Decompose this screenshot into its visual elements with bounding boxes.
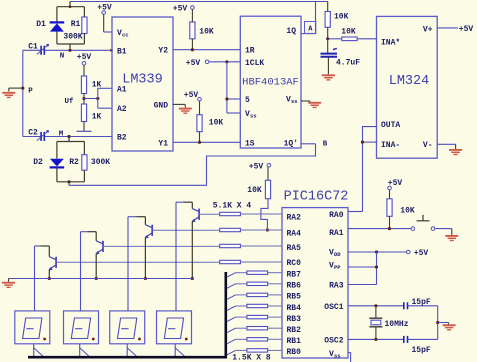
svg-text:5.1K X 4: 5.1K X 4 bbox=[213, 201, 252, 210]
wire P to ground bbox=[9, 87, 23, 89]
capacitor C3 4.7uF bbox=[321, 39, 338, 75]
capacitor C1 (variable) bbox=[37, 44, 49, 55]
svg-text:10K: 10K bbox=[199, 28, 214, 37]
svg-text:+5V: +5V bbox=[186, 59, 201, 68]
svg-text:OSC1: OSC1 bbox=[324, 303, 343, 312]
pin 1R label bbox=[245, 47, 255, 56]
wire Y2 to HBF 1R bbox=[173, 49, 240, 51]
pin INA+ label bbox=[381, 38, 400, 47]
wire +5V to 1CLK bbox=[209, 60, 240, 63]
label 10MHz bbox=[385, 320, 409, 329]
pin B1 label bbox=[117, 47, 127, 56]
svg-text:RA4: RA4 bbox=[287, 230, 302, 239]
transistor Q2 bbox=[81, 232, 220, 311]
wire D2/R2 box bottom bbox=[57, 181, 85, 183]
label 10K (Y2 pullup) bbox=[199, 28, 214, 37]
op-amp U1 LM339 box bbox=[112, 17, 173, 151]
label node A bbox=[308, 25, 313, 33]
pin 5 label bbox=[245, 96, 250, 105]
label LM339 bbox=[122, 73, 163, 88]
svg-text:Uf: Uf bbox=[64, 98, 74, 106]
svg-text:+5V: +5V bbox=[77, 53, 92, 62]
svg-text:OSC2: OSC2 bbox=[324, 336, 343, 345]
resistor 10K (RA1) bbox=[387, 199, 392, 217]
svg-text:300K: 300K bbox=[63, 33, 82, 42]
svg-text:B2: B2 bbox=[117, 134, 127, 143]
svg-text:HBF4013AF: HBF4013AF bbox=[242, 77, 299, 89]
label M bbox=[59, 130, 64, 138]
wire 10K jog to RA4 bbox=[261, 199, 269, 232]
power +5V (LM339 Vcc) bbox=[97, 4, 112, 32]
svg-text:1Q': 1Q' bbox=[284, 140, 298, 149]
junction Q1 emitter-rail bbox=[48, 277, 51, 280]
label 1.5K X 8 bbox=[232, 354, 271, 362]
power +5V (RA1) bbox=[388, 179, 403, 199]
pin RA0 label bbox=[329, 211, 344, 220]
flip-flop U2 HBF4013AF box bbox=[240, 16, 301, 148]
pin Vss label (PIC) bbox=[329, 350, 341, 360]
svg-text:RA0: RA0 bbox=[329, 211, 344, 220]
svg-text:D1: D1 bbox=[36, 20, 46, 29]
capacitor 15pF upper bbox=[404, 302, 438, 309]
ground (oscillator) bbox=[443, 323, 456, 330]
wire button to ground bbox=[435, 229, 452, 235]
wire PIC Vss down bbox=[348, 353, 351, 362]
svg-text:10K: 10K bbox=[341, 28, 356, 37]
svg-text:DD: DD bbox=[334, 251, 341, 258]
pin 1S label bbox=[245, 140, 255, 149]
label 10K (to INA+) bbox=[341, 28, 356, 37]
svg-text:Y2: Y2 bbox=[158, 47, 168, 56]
svg-text:LM339: LM339 bbox=[122, 73, 163, 88]
svg-text:1R: 1R bbox=[245, 47, 255, 56]
svg-text:cc: cc bbox=[122, 32, 129, 39]
junction node M bbox=[67, 135, 70, 138]
svg-text:10MHz: 10MHz bbox=[385, 320, 409, 329]
wire D1/R1 box top bbox=[57, 2, 85, 8]
wire Uf to A1/A2 bracket bbox=[84, 88, 112, 108]
junction Q4 emitter-rail bbox=[191, 277, 194, 280]
label PIC16C72 bbox=[284, 190, 349, 205]
svg-text:10K: 10K bbox=[400, 207, 415, 216]
svg-text:P: P bbox=[28, 88, 33, 96]
svg-text:+5V: +5V bbox=[173, 4, 188, 13]
label 1K upper bbox=[92, 81, 102, 90]
wire 1Q to node A bbox=[301, 2, 316, 34]
svg-text:N: N bbox=[60, 53, 65, 61]
label N bbox=[60, 53, 65, 61]
svg-text:PP: PP bbox=[334, 264, 341, 271]
junction Q2 emitter-rail bbox=[95, 277, 98, 280]
label HBF4013AF bbox=[242, 77, 299, 89]
pin 1CLK label bbox=[245, 59, 264, 68]
wire C1 left + left branch vertical bbox=[23, 50, 39, 136]
label D2 bbox=[33, 158, 43, 167]
label Uf bbox=[64, 98, 74, 106]
svg-text:RB0: RB0 bbox=[287, 348, 302, 357]
svg-text:15pF: 15pF bbox=[412, 298, 431, 307]
svg-text:RA5: RA5 bbox=[287, 244, 302, 253]
svg-text:10K: 10K bbox=[209, 119, 224, 128]
label C2 bbox=[28, 129, 38, 138]
transistor Q1 bbox=[35, 246, 220, 311]
label 5.1K X 4 bbox=[213, 201, 252, 210]
wire RA1 net bbox=[348, 216, 411, 230]
wire DS1 to bus bbox=[34, 344, 44, 357]
label P bbox=[28, 88, 33, 96]
resistor 1K lower bbox=[81, 104, 86, 122]
wire C2 left bbox=[23, 136, 39, 138]
wire LM339 GND pin bbox=[173, 104, 185, 107]
ground (emitter rail) bbox=[2, 279, 15, 288]
svg-text:5: 5 bbox=[245, 96, 250, 105]
label 10K (Y1 pullup) bbox=[209, 119, 224, 128]
wire VDD/VPP/RA3 to +5V bbox=[348, 250, 407, 284]
node A box bbox=[305, 22, 316, 34]
wire Vcc to LM339 bbox=[104, 31, 112, 33]
svg-text:A1: A1 bbox=[117, 85, 127, 94]
resistor 10K (Y2 pullup) bbox=[190, 22, 195, 39]
svg-text:D2: D2 bbox=[33, 158, 43, 167]
svg-text:ss: ss bbox=[250, 113, 257, 120]
svg-text:A2: A2 bbox=[117, 105, 127, 114]
label 15pF upper bbox=[412, 298, 431, 307]
pin 1Q label bbox=[286, 27, 296, 36]
pin Y2 label bbox=[158, 47, 168, 56]
svg-text:1Q: 1Q bbox=[286, 27, 296, 36]
switch S1 (push button) bbox=[411, 215, 435, 231]
display DS3 (7-segment) bbox=[110, 311, 145, 344]
svg-text:B: B bbox=[323, 141, 328, 149]
wire OUTA to RA0 bbox=[348, 211, 363, 213]
svg-text:+5V: +5V bbox=[184, 91, 199, 100]
junction node N bbox=[68, 49, 71, 52]
label R2 value 300K bbox=[91, 158, 110, 167]
wire Y1 to HBF 1S bbox=[173, 141, 240, 143]
pin GND label bbox=[154, 101, 169, 110]
label D1 bbox=[36, 20, 46, 29]
svg-text:ss: ss bbox=[291, 98, 298, 105]
wire DS3 to bus bbox=[127, 344, 137, 357]
svg-text:V-: V- bbox=[423, 141, 433, 150]
label 15pF lower bbox=[412, 346, 431, 355]
svg-text:RB7: RB7 bbox=[287, 271, 302, 280]
ground (node P) bbox=[2, 88, 15, 97]
resistor 10K (Y1 pullup) bbox=[197, 115, 202, 132]
svg-text:INA-: INA- bbox=[381, 141, 400, 150]
label R2 bbox=[69, 158, 79, 167]
wire OUTA feedback to INA- bbox=[361, 127, 377, 212]
label 1K lower bbox=[92, 113, 102, 122]
ground (4.7uF) bbox=[322, 75, 335, 80]
wire V- to ground bbox=[437, 144, 455, 149]
svg-text:RB6: RB6 bbox=[287, 282, 302, 291]
svg-text:RC0: RC0 bbox=[287, 259, 302, 268]
svg-text:300K: 300K bbox=[91, 158, 110, 167]
label 10K (RA4 pullup) bbox=[247, 186, 262, 195]
svg-text:4.7uF: 4.7uF bbox=[336, 59, 360, 68]
wire DS2 to bus bbox=[80, 344, 90, 357]
display DS1 (7-segment) bbox=[15, 311, 50, 344]
pin Vss label (right) bbox=[286, 96, 298, 106]
ground (RA1 button) bbox=[445, 236, 458, 241]
svg-text:RA1: RA1 bbox=[329, 229, 344, 238]
transistor Q3 bbox=[128, 217, 220, 311]
pin RA3 label bbox=[329, 282, 344, 291]
wire osc right leg bbox=[436, 306, 448, 340]
resistor R1 bbox=[82, 7, 87, 44]
wire common emitter rail bbox=[9, 278, 193, 280]
pin OUTA label bbox=[381, 121, 400, 130]
svg-text:10K: 10K bbox=[334, 13, 349, 22]
op-amp U3 LM324 box bbox=[377, 16, 438, 158]
bus segment lines (thick) bbox=[28, 272, 226, 357]
junction RC node bbox=[326, 37, 329, 40]
wire OSC1 net bbox=[348, 304, 403, 307]
display DS2 (7-segment) bbox=[64, 311, 99, 344]
power +5V (VDD) bbox=[407, 249, 429, 258]
wire OSC2 net bbox=[348, 338, 403, 341]
crystal X1 10MHz bbox=[369, 306, 382, 340]
svg-text:LM324: LM324 bbox=[389, 74, 430, 89]
resistor 10K (series from A) bbox=[325, 2, 330, 39]
wire 10K to Y1 junction bbox=[198, 132, 201, 144]
svg-text:B1: B1 bbox=[117, 47, 127, 56]
svg-text:OUTA: OUTA bbox=[381, 121, 400, 130]
wire 10K to Y2 junction bbox=[191, 39, 194, 52]
pin A2 label bbox=[117, 105, 127, 114]
resistors 1.5K x8 with bus taps bbox=[227, 271, 282, 355]
capacitor C2 (variable) bbox=[37, 130, 49, 141]
wire HBF Vss to ground bbox=[301, 100, 310, 103]
pin VPP label bbox=[329, 262, 341, 272]
wire V+ to +5V bbox=[437, 27, 458, 29]
pin B2 label bbox=[117, 134, 127, 143]
svg-text:1S: 1S bbox=[245, 140, 255, 149]
svg-text:RA3: RA3 bbox=[329, 282, 344, 291]
power +5V (Y2 pullup) bbox=[173, 4, 194, 22]
label 10K (series from A) bbox=[334, 13, 349, 22]
ground (LM324 V-) bbox=[449, 150, 462, 155]
ground (LM339 GND) bbox=[179, 109, 192, 114]
pin VDD label bbox=[329, 249, 341, 259]
wire DS4 to bus bbox=[175, 344, 185, 357]
pin OSC2 label bbox=[324, 336, 343, 345]
svg-text:1K: 1K bbox=[92, 113, 102, 122]
svg-text:RA2: RA2 bbox=[287, 214, 302, 223]
label LM324 bbox=[389, 74, 430, 89]
wire D1/R1 box bottom bbox=[57, 44, 85, 50]
pin INA- label bbox=[381, 141, 400, 150]
pin V- label bbox=[423, 141, 433, 150]
junction Q3 emitter-rail bbox=[144, 277, 147, 280]
pin A1 label bbox=[117, 85, 127, 94]
power +5V (1CLK) bbox=[186, 59, 209, 68]
diode D2 bbox=[50, 142, 65, 182]
svg-text:R2: R2 bbox=[69, 158, 79, 167]
svg-text:RB5: RB5 bbox=[287, 293, 302, 302]
label 4.7uF bbox=[336, 59, 360, 68]
pin 1Q' label bbox=[284, 140, 298, 149]
wire divider middle bbox=[83, 94, 85, 105]
diode D1 bbox=[50, 7, 65, 44]
wire D2/R2 box top bbox=[57, 141, 85, 143]
wire net B bbox=[69, 144, 316, 186]
transistor Q4 bbox=[176, 202, 220, 311]
junction D2/R2 bottom bbox=[67, 180, 70, 183]
wire top rail net A (D1/R1 top to right) bbox=[70, 1, 328, 3]
junction node P bbox=[21, 87, 24, 90]
svg-text:Y1: Y1 bbox=[158, 139, 168, 148]
pin labels PIC left (RA2,RA4,RA5,RC0,RB7-RB0) bbox=[287, 214, 302, 358]
label R1 value 300K bbox=[63, 33, 82, 42]
resistor 1K upper bbox=[81, 76, 86, 94]
label +5V (LM324) bbox=[459, 25, 474, 34]
svg-text:RB1: RB1 bbox=[287, 337, 302, 346]
svg-text:1.5K X 8: 1.5K X 8 bbox=[232, 354, 271, 362]
svg-text:M: M bbox=[59, 130, 64, 138]
svg-text:RB2: RB2 bbox=[287, 326, 302, 335]
svg-text:RB4: RB4 bbox=[287, 304, 302, 313]
display DS4 (7-segment) bbox=[157, 311, 192, 344]
svg-text:ss: ss bbox=[334, 352, 341, 359]
ground (HBF Vss) bbox=[308, 103, 321, 108]
wire divider bottom + ground tick bbox=[77, 122, 92, 132]
svg-text:RB3: RB3 bbox=[287, 315, 302, 324]
wire node M horizontal bbox=[44, 136, 112, 138]
label node B bbox=[323, 141, 328, 149]
pin Vss label (left) bbox=[245, 110, 257, 120]
pin Vcc label bbox=[117, 29, 129, 39]
svg-text:10K: 10K bbox=[247, 186, 262, 195]
label C1 bbox=[28, 42, 38, 51]
resistor 10K (to INA+) bbox=[328, 37, 377, 41]
wire 1Q' pin bbox=[301, 143, 316, 145]
svg-text:+5V: +5V bbox=[414, 249, 429, 258]
pin RA1 label bbox=[329, 229, 344, 238]
svg-text:+5V: +5V bbox=[459, 25, 474, 34]
power +5V (Y1 pullup) bbox=[184, 91, 202, 115]
svg-text:R1: R1 bbox=[71, 20, 81, 29]
pin Y1 label bbox=[158, 139, 168, 148]
pin V+ label bbox=[423, 25, 433, 34]
svg-text:+5V: +5V bbox=[249, 163, 264, 172]
capacitor 15pF lower bbox=[404, 336, 438, 343]
power +5V (divider) bbox=[77, 53, 92, 76]
svg-text:INA*: INA* bbox=[381, 38, 400, 47]
wire M to D2/R2 box bbox=[68, 137, 70, 142]
svg-text:GND: GND bbox=[154, 101, 169, 110]
svg-text:15pF: 15pF bbox=[412, 346, 431, 355]
svg-text:V+: V+ bbox=[423, 25, 433, 34]
svg-text:PIC16C72: PIC16C72 bbox=[284, 190, 349, 205]
resistor 10K (RA4 pullup) bbox=[265, 180, 270, 198]
resistor R2 bbox=[82, 142, 87, 182]
pin OSC1 label bbox=[324, 303, 343, 312]
label R1 bbox=[71, 20, 81, 29]
svg-text:1CLK: 1CLK bbox=[245, 59, 264, 68]
power +5V (RA4 pullup) bbox=[249, 163, 271, 181]
wire node N horizontal bbox=[44, 49, 113, 52]
resistors 5.1K x4 with wires to RA2/RA4/RA5/RC0 bbox=[220, 212, 282, 263]
label 10K (RA1) bbox=[400, 207, 415, 216]
junction Uf bbox=[82, 97, 85, 100]
wire 1CLK branch to pins 5/Vss bbox=[225, 62, 240, 113]
mcu U4 PIC16C72 box bbox=[282, 208, 348, 358]
